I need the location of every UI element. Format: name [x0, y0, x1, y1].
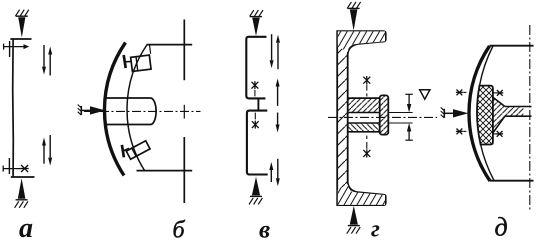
panel g: bottom flange dense hatch — [338, 184, 385, 205]
panel b: horizontal centerline — [84, 110, 201, 112]
panel v: top fixture — [250, 10, 263, 36]
panel b: weld arrow — [78, 105, 106, 116]
panel g: edge bar of splice tee, hatched — [380, 95, 389, 134]
svg-text:д: д — [495, 213, 508, 242]
panel v: lower channel bracket — [247, 111, 268, 175]
panel b: shell wall lower segment — [183, 137, 185, 203]
panel b: shell wall upper segment — [183, 20, 185, 81]
panel v: bottom fixture — [249, 177, 262, 205]
panel g: level mark nabla — [420, 90, 430, 100]
panel g: top fixture — [347, 2, 360, 31]
panel g: channel section (web and flanges), hatched — [337, 31, 386, 205]
panel d: shell inner surface arc lower — [481, 145, 494, 181]
panel b: dished head outer surface arc — [104, 43, 125, 176]
panel g: lower splice plate, hatched — [348, 123, 381, 132]
panel g: tack asterisk above — [363, 76, 370, 96]
panel g: top flange dense hatch — [338, 31, 385, 52]
panel g: gap extension line lower — [388, 122, 412, 124]
svg-text:в: в — [259, 217, 270, 244]
panel d: rib vertical plate, crosshatched — [477, 86, 493, 145]
svg-text:а: а — [19, 213, 33, 244]
panel a: top tack arrow — [4, 44, 30, 50]
panel g: gap dimension arrow upper — [405, 94, 412, 112]
panel a: short tack strip bottom — [8, 158, 10, 174]
panel d: tack asterisk right top — [493, 90, 503, 96]
panel g: bottom fixture — [347, 206, 360, 234]
panel d: shell inner surface arc upper — [480, 46, 494, 86]
panel a: plate butt seam vertical line — [12, 39, 15, 177]
svg-text:г: г — [371, 217, 380, 243]
panel a: weld direction pair bottom — [42, 135, 52, 166]
panel d: tack asterisk left top — [456, 90, 467, 96]
panel v: upper channel bracket — [246, 37, 266, 99]
panel a: bottom fixture clamp — [15, 178, 28, 208]
panel d: rib horizontal plate with gusset, hatched — [493, 97, 532, 133]
panel a: weld direction pair top — [42, 45, 52, 76]
panel a: top edge line — [10, 38, 31, 40]
panel v: tack asterisk above joint — [252, 81, 259, 96]
panel a: bottom edge line — [11, 176, 35, 178]
panel d: weld arrow — [441, 107, 469, 118]
panel b: dished head inner flange arc — [127, 44, 147, 171]
panel b: flange thickness tick — [150, 45, 151, 53]
panel v: weld direction pair top — [270, 34, 280, 69]
panel g: horizontal centerline — [328, 116, 437, 118]
panel v: weld direction pair bottom — [269, 159, 280, 187]
panel b: axis cross tick — [183, 105, 185, 119]
panel g: gap extension line upper — [388, 112, 412, 114]
panel g: upper splice plate, hatched — [348, 98, 381, 112]
panel v: tack asterisk below joint — [252, 113, 259, 129]
panel g: tack asterisk below — [363, 136, 370, 158]
panel d: shell bottom edge line — [490, 180, 534, 182]
panel d: shell top edge line — [490, 45, 534, 47]
panel d: vertical axis line — [529, 25, 531, 212]
panel d: tack asterisk right bottom — [493, 131, 503, 137]
panel a: top fixture clamp — [15, 10, 28, 38]
panel b: lower screw clamp — [122, 141, 150, 159]
panel v: middle arrow up — [277, 87, 279, 106]
panel g: gap dimension arrow lower — [405, 123, 412, 140]
panel a: short tack strip top — [9, 41, 11, 57]
panel a: bottom tack arrow with tack-weld asterisk — [3, 165, 29, 172]
panel b: upper screw clamp — [124, 55, 151, 71]
panel d: shell outer surface arc — [469, 46, 490, 181]
panel v: butt joint line — [257, 98, 259, 110]
panel d: tack asterisk left bottom — [456, 129, 467, 135]
panel v: middle arrow down — [277, 113, 279, 125]
svg-text:б: б — [173, 218, 186, 244]
panel b: shell top edge line — [147, 44, 192, 46]
panel b: nozzle boss outline — [105, 98, 156, 125]
panel b: shell bottom edge line — [137, 170, 193, 172]
